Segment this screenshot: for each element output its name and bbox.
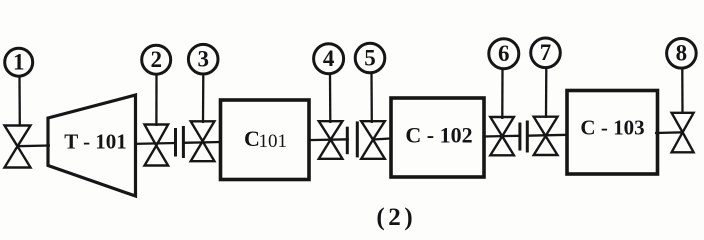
flange coupling A <box>176 126 184 158</box>
valve 3 <box>191 121 215 161</box>
valve 5 <box>361 121 385 159</box>
wire stem 7 <box>545 68 548 118</box>
svg-text:2: 2 <box>388 204 401 231</box>
wire pipe valve5 to C-102 <box>373 138 392 139</box>
svg-text:C - 103: C - 103 <box>580 116 644 140</box>
compressor C-103 <box>567 91 658 175</box>
wire stem 3 <box>202 74 205 123</box>
node circle 3 <box>188 44 218 74</box>
wire pipe C101 to coupling B <box>308 138 349 141</box>
wire stem 2 <box>155 74 157 126</box>
wire pipe valve1 to T-101 <box>18 144 51 147</box>
turbine T-101 <box>48 95 136 196</box>
wire stem 8 <box>681 68 684 114</box>
wire stem 4 <box>329 74 332 124</box>
svg-text:5: 5 <box>364 45 376 70</box>
svg-text:7: 7 <box>540 40 552 65</box>
node circle 8 <box>667 39 697 69</box>
svg-text:C: C <box>244 126 260 151</box>
svg-text:C - 102: C - 102 <box>405 123 472 148</box>
svg-text:6: 6 <box>498 41 510 66</box>
valve 7 <box>534 117 558 155</box>
svg-text:): ) <box>404 204 412 231</box>
svg-text:1: 1 <box>13 50 25 75</box>
wire pipe C-102 to coupling C <box>483 135 520 138</box>
wire pipe C-103 to valve 8 <box>655 131 684 134</box>
flange coupling B <box>347 121 357 157</box>
wire pipe valve7 to C-103 <box>527 134 568 137</box>
wire pipe T-101 to valve 2 <box>134 142 176 145</box>
wire stem 6 <box>501 69 504 119</box>
svg-text:T - 101: T - 101 <box>64 130 127 154</box>
node circle 2 <box>142 45 171 74</box>
node circle 6 <box>489 39 519 69</box>
svg-text:4: 4 <box>323 46 335 71</box>
svg-text:(: ( <box>376 204 384 231</box>
node circle 5 <box>355 43 385 73</box>
node circle 7 <box>531 38 561 68</box>
valve 2 <box>145 125 169 166</box>
wire stem 5 <box>370 73 373 123</box>
compressor C-102 <box>391 98 484 177</box>
valve 4 <box>319 121 343 159</box>
compressor C101 <box>221 100 310 180</box>
svg-text:101: 101 <box>259 131 288 152</box>
wire pipe coupling A to C101 <box>183 141 221 144</box>
flange coupling C <box>520 121 527 153</box>
valve 1 <box>5 126 31 168</box>
valve 6 <box>490 117 514 155</box>
node circle 4 <box>314 44 344 74</box>
svg-text:2: 2 <box>150 47 162 72</box>
wire stem 1 <box>18 77 21 127</box>
svg-text:3: 3 <box>197 47 209 72</box>
node circle 1 <box>5 48 33 76</box>
valve 8 <box>672 113 694 153</box>
svg-text:8: 8 <box>676 41 688 66</box>
